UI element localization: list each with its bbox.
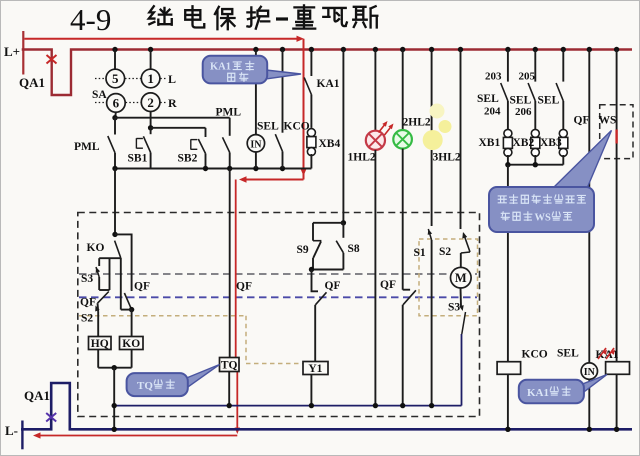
svg-text:XB2: XB2 xyxy=(513,137,535,149)
svg-text:QF: QF xyxy=(236,281,252,293)
svg-text:1: 1 xyxy=(147,71,154,86)
svg-text:KA1: KA1 xyxy=(317,78,340,90)
breaker QA1 open marker xyxy=(47,55,57,64)
junction rail x535.3 xyxy=(533,47,538,52)
wire S3 loop bottom xyxy=(99,289,109,291)
contact KA1 xyxy=(310,50,312,77)
svg-text:L: L xyxy=(168,72,176,86)
svg-text:6: 6 xyxy=(113,96,120,111)
junction Y1 blue bus xyxy=(309,403,314,408)
svg-text:TQ: TQ xyxy=(221,359,238,371)
contact S8 xyxy=(342,223,344,238)
wire rail to IN2 xyxy=(588,50,590,363)
wire KCO to rail xyxy=(507,374,509,429)
wire S3 loop top xyxy=(99,257,121,259)
junction SA6 xyxy=(112,115,117,120)
wire flow red top xyxy=(25,38,298,40)
contact QF Y1 xyxy=(312,270,319,292)
wire node B to KO coil xyxy=(131,310,133,337)
contact PML right xyxy=(229,118,231,136)
svg-text:SEL: SEL xyxy=(538,94,560,106)
wire to KCO coil xyxy=(507,165,509,362)
svg-text:IN: IN xyxy=(250,139,262,150)
junction node A xyxy=(112,232,117,237)
wire SA2 down xyxy=(150,112,152,128)
tan dashed line xyxy=(79,315,246,317)
svg-text:S2: S2 xyxy=(81,313,93,325)
wire rail to SA1 xyxy=(150,50,152,70)
wire motor branch return xyxy=(461,334,463,406)
svg-text:5: 5 xyxy=(112,71,119,86)
switch S3 motor xyxy=(459,305,464,311)
callout TQ energized xyxy=(187,365,220,389)
wire S3 loop right leg xyxy=(109,258,111,290)
coil HQ xyxy=(89,337,112,350)
svg-text:SEL: SEL xyxy=(257,121,279,133)
title char hu4 xyxy=(247,7,269,29)
contact QF 2HL2 xyxy=(403,289,410,291)
callout WS box xyxy=(552,130,612,193)
wire horiz y127 xyxy=(151,127,206,129)
svg-text:PML: PML xyxy=(216,107,242,119)
svg-text:QF: QF xyxy=(380,279,396,291)
coil KA1 xyxy=(606,362,630,375)
junction XB join 1 xyxy=(505,162,510,167)
junction bus168 x255.9 xyxy=(253,166,258,171)
callout WS line1 g7 xyxy=(577,195,585,203)
wire XB1 down xyxy=(507,155,509,165)
svg-text:203: 203 xyxy=(485,71,502,83)
svg-text:S3: S3 xyxy=(81,273,93,285)
callout WS line2b g0 xyxy=(552,212,560,220)
svg-text:SEL: SEL xyxy=(477,93,499,105)
svg-text:4-9: 4-9 xyxy=(70,2,111,37)
lamp 3HL2 yellow xyxy=(423,130,443,150)
callout WS line1 g6 xyxy=(566,196,574,203)
junction rail x255.9 xyxy=(253,47,258,52)
flow arrow left2 xyxy=(33,432,41,438)
wire Y1 down xyxy=(310,375,312,406)
title char zhong xyxy=(293,5,315,28)
svg-text:Y1: Y1 xyxy=(308,363,322,375)
junction rail x507.9 xyxy=(505,47,510,52)
button SB2 xyxy=(205,128,207,137)
gray dashed line xyxy=(79,273,477,275)
red annotation arrows xyxy=(379,123,387,133)
svg-text:SB1: SB1 xyxy=(128,153,148,165)
callout WS line1 g5 xyxy=(555,195,563,203)
contact KO xyxy=(115,241,121,258)
switch S2 motor xyxy=(464,234,471,253)
wire flow red down x303 xyxy=(303,39,305,168)
svg-text:QA1: QA1 xyxy=(19,75,45,90)
flow arrow down xyxy=(300,169,306,177)
junction rail x563.3 xyxy=(561,47,566,52)
wire HQ bottom xyxy=(97,350,99,368)
wire KA1 to rail xyxy=(616,374,618,429)
tan dashed box S1-S3 xyxy=(419,239,478,316)
junction C rail xyxy=(112,427,117,432)
junction rail x343.4 xyxy=(341,47,346,52)
coil Y1 xyxy=(303,362,328,375)
flow arrow down2 xyxy=(235,428,240,435)
svg-text:204: 204 xyxy=(484,106,501,118)
svg-text:WS: WS xyxy=(599,115,617,127)
junction S9S8 bottom xyxy=(309,267,314,272)
wire XB join y164 xyxy=(508,164,563,166)
wire flow red below TQ xyxy=(236,372,238,429)
wire rail to S9S8 xyxy=(342,50,344,223)
wire flow red bottom return xyxy=(40,435,237,437)
junction SA2 xyxy=(148,125,153,130)
wire 2HL2 down xyxy=(402,149,404,290)
svg-text:QA1: QA1 xyxy=(24,388,50,403)
junction bus168 x115 xyxy=(112,166,117,171)
junction rail x311.4 xyxy=(309,47,314,52)
wire TQ down xyxy=(228,372,230,406)
wire rail to 2HL2 xyxy=(402,50,404,131)
wire XB3 down xyxy=(562,155,564,165)
junction rail x431.6 xyxy=(429,47,434,52)
junction bus168 x205.5 xyxy=(203,166,208,171)
wire WS column xyxy=(616,50,618,362)
node L- stub xyxy=(21,421,23,450)
coil KO xyxy=(120,337,144,350)
title char dian xyxy=(185,6,204,27)
callout WS line1 g0 xyxy=(498,196,506,203)
wire join coils xyxy=(98,367,131,369)
junction S1 blue bus xyxy=(429,403,434,408)
lamp IN bottom xyxy=(581,363,597,379)
junction node C xyxy=(112,365,117,370)
SA dotted leaders row1 xyxy=(95,78,106,80)
link XB 3 xyxy=(559,129,567,137)
junction rail x115 xyxy=(112,47,117,52)
wire 3HL2 to S1 xyxy=(431,150,433,226)
junction rail x616.6 xyxy=(614,47,619,52)
svg-text:M: M xyxy=(455,271,467,285)
wire bus to node A xyxy=(114,169,116,235)
wire rail to S2 xyxy=(460,50,462,230)
junction rail x282.5 xyxy=(280,47,285,52)
wire S9S8 bracket top xyxy=(313,222,343,224)
svg-text:SB2: SB2 xyxy=(178,153,198,165)
callout WS line1 g1 xyxy=(510,195,518,204)
SA contact circle 5 xyxy=(106,69,125,88)
SA dotted leaders row2 xyxy=(95,102,106,104)
flow arrow right xyxy=(297,36,305,42)
svg-text:1HL2: 1HL2 xyxy=(348,152,376,164)
contact SEL chain 2 xyxy=(534,50,536,82)
node L+ stub xyxy=(22,31,24,75)
title char bao xyxy=(215,7,235,29)
callout WS line2 g1 xyxy=(513,212,520,220)
motor M xyxy=(451,267,472,288)
contact SEL top xyxy=(282,50,284,133)
svg-text:QF: QF xyxy=(574,115,590,127)
svg-text:L+: L+ xyxy=(4,44,20,59)
junction rail x150.6 xyxy=(148,47,153,52)
flow arrow left xyxy=(239,176,247,182)
WS contact closed red xyxy=(615,130,617,144)
contact QF left xyxy=(98,292,109,304)
svg-text:KCO: KCO xyxy=(284,121,310,133)
breaker QA1 bottom open marker xyxy=(46,413,56,422)
SA contact circle 6 xyxy=(107,94,126,113)
junction bus168 x229.7 xyxy=(227,166,232,171)
wire 1HL2 down xyxy=(374,150,376,406)
svg-text:SEL: SEL xyxy=(510,94,532,106)
SA contact circle 1 xyxy=(141,69,160,88)
svg-text:QF: QF xyxy=(325,280,341,292)
link XB 1 xyxy=(504,129,512,137)
wire S9S8 bracket bottom xyxy=(312,269,344,271)
svg-text:SEL: SEL xyxy=(557,348,579,360)
callout KA1 contact closes xyxy=(266,70,301,79)
WS dashed box xyxy=(600,105,633,159)
wire bus to TQ xyxy=(229,169,231,358)
wire XB2 down xyxy=(534,155,536,165)
svg-text:IN: IN xyxy=(584,367,596,378)
lamp 1HL2 xyxy=(366,131,385,150)
button SB1 xyxy=(150,128,152,134)
svg-text:WS: WS xyxy=(535,213,552,224)
wire M to S3 xyxy=(460,288,463,307)
switch S2 left xyxy=(97,303,100,311)
switch S1 xyxy=(428,229,431,240)
callout WS line1 g2 xyxy=(521,195,528,203)
svg-text:KA1: KA1 xyxy=(596,349,619,361)
contact QF bypass xyxy=(124,293,131,310)
svg-text:L-: L- xyxy=(5,423,18,438)
switch S3 left xyxy=(98,258,100,266)
svg-text:S1: S1 xyxy=(414,247,426,259)
svg-text:KA1: KA1 xyxy=(527,387,549,399)
coil KCO xyxy=(497,362,520,375)
blue dashed line xyxy=(79,296,477,298)
title dash xyxy=(276,17,288,20)
wire IN to bus xyxy=(255,152,257,169)
lamp IN top xyxy=(247,135,264,152)
svg-text:KO: KO xyxy=(122,338,140,350)
junction node B xyxy=(129,307,134,312)
svg-text:S8: S8 xyxy=(348,243,360,255)
junction 1HL2 blue bus xyxy=(373,403,378,408)
svg-text:SA: SA xyxy=(92,89,107,101)
junction rail-bottom x589.3 xyxy=(587,427,592,432)
junction rail x589.3 xyxy=(587,47,592,52)
callout KA1 energized xyxy=(583,375,608,394)
link XB4 xyxy=(307,129,315,137)
svg-text:S9: S9 xyxy=(297,244,309,256)
junction rail x375.4 xyxy=(373,47,378,52)
title char si xyxy=(353,6,377,27)
wire flow red branch left xyxy=(303,168,305,180)
title char ji4 xyxy=(149,6,172,24)
svg-text:QF: QF xyxy=(134,281,150,293)
svg-text:KO: KO xyxy=(87,242,105,254)
svg-text:PML: PML xyxy=(74,141,100,153)
wire flow red down to TQ xyxy=(235,180,237,358)
junction TQ blue bus xyxy=(227,403,232,408)
callout WS line2 g2 xyxy=(524,212,532,221)
wire rail to IN xyxy=(255,50,257,135)
junction rail x460.5 xyxy=(458,47,463,52)
contact PML left xyxy=(114,118,116,135)
callout WS line1 g3 xyxy=(532,195,540,203)
callout WS line2 g0 xyxy=(501,212,509,220)
wire bus y168 xyxy=(115,168,311,170)
junction S9S8 top xyxy=(341,220,346,225)
big dashed enclosure box xyxy=(78,213,480,417)
svg-text:XB4: XB4 xyxy=(319,138,341,150)
junction rail-bottom x616.6 xyxy=(614,427,619,432)
red marks on KA1 label xyxy=(598,348,606,359)
link XB 2 xyxy=(531,129,539,137)
svg-text:QF: QF xyxy=(80,297,96,309)
contact SEL chain 1 xyxy=(507,50,509,82)
svg-text:S3: S3 xyxy=(448,302,460,314)
svg-text:XB3: XB3 xyxy=(540,137,562,149)
wire rail to SA5 xyxy=(114,50,116,70)
svg-text:HQ: HQ xyxy=(91,338,109,350)
svg-text:2HL2: 2HL2 xyxy=(403,117,431,129)
junction rail-bottom x507.9 xyxy=(505,427,510,432)
junction C blue bus xyxy=(112,403,117,408)
svg-text:3HL2: 3HL2 xyxy=(433,152,461,164)
wire IN2 to rail xyxy=(588,379,590,429)
svg-text:R: R xyxy=(168,96,177,110)
svg-text:KCO: KCO xyxy=(522,349,548,361)
wire KO bottom xyxy=(131,350,133,368)
title char wa xyxy=(323,8,347,26)
wire horiz y117 xyxy=(115,117,230,119)
junction XB join 2 xyxy=(533,162,538,167)
wire XB4 to bus xyxy=(310,154,312,169)
svg-text:S2: S2 xyxy=(439,246,451,258)
svg-text:205: 205 xyxy=(519,71,536,83)
wire SA6 down xyxy=(114,112,117,118)
svg-text:XB1: XB1 xyxy=(479,137,501,149)
L+ rail with QA1 gap xyxy=(22,50,632,96)
svg-text:206: 206 xyxy=(515,106,532,118)
svg-text:TQ: TQ xyxy=(137,380,153,392)
junction rail x402.7 xyxy=(400,47,405,52)
contact SEL chain 3 xyxy=(562,50,564,82)
coil TQ xyxy=(220,358,240,372)
lamp 2HL2 xyxy=(393,130,412,149)
SA contact circle 2 xyxy=(141,93,160,112)
wire rail to 1HL2 xyxy=(374,50,376,131)
callout WS line1 g4 xyxy=(543,195,551,204)
callout WS line2b g1 xyxy=(564,212,572,220)
svg-text:KA1: KA1 xyxy=(210,62,231,73)
wire bottom collector navy xyxy=(114,405,461,407)
junction bus168 x282.5 xyxy=(280,166,285,171)
junction 2HL2 blue bus xyxy=(400,403,405,408)
svg-text:2: 2 xyxy=(147,95,154,110)
L- rail with QA1 gap xyxy=(21,383,632,429)
wire C down xyxy=(113,368,115,430)
tan dashed L near TQ xyxy=(245,316,247,362)
wire rail to 3HL2 xyxy=(431,50,433,132)
switch S9 xyxy=(312,223,314,241)
wire bypass right xyxy=(115,234,132,291)
